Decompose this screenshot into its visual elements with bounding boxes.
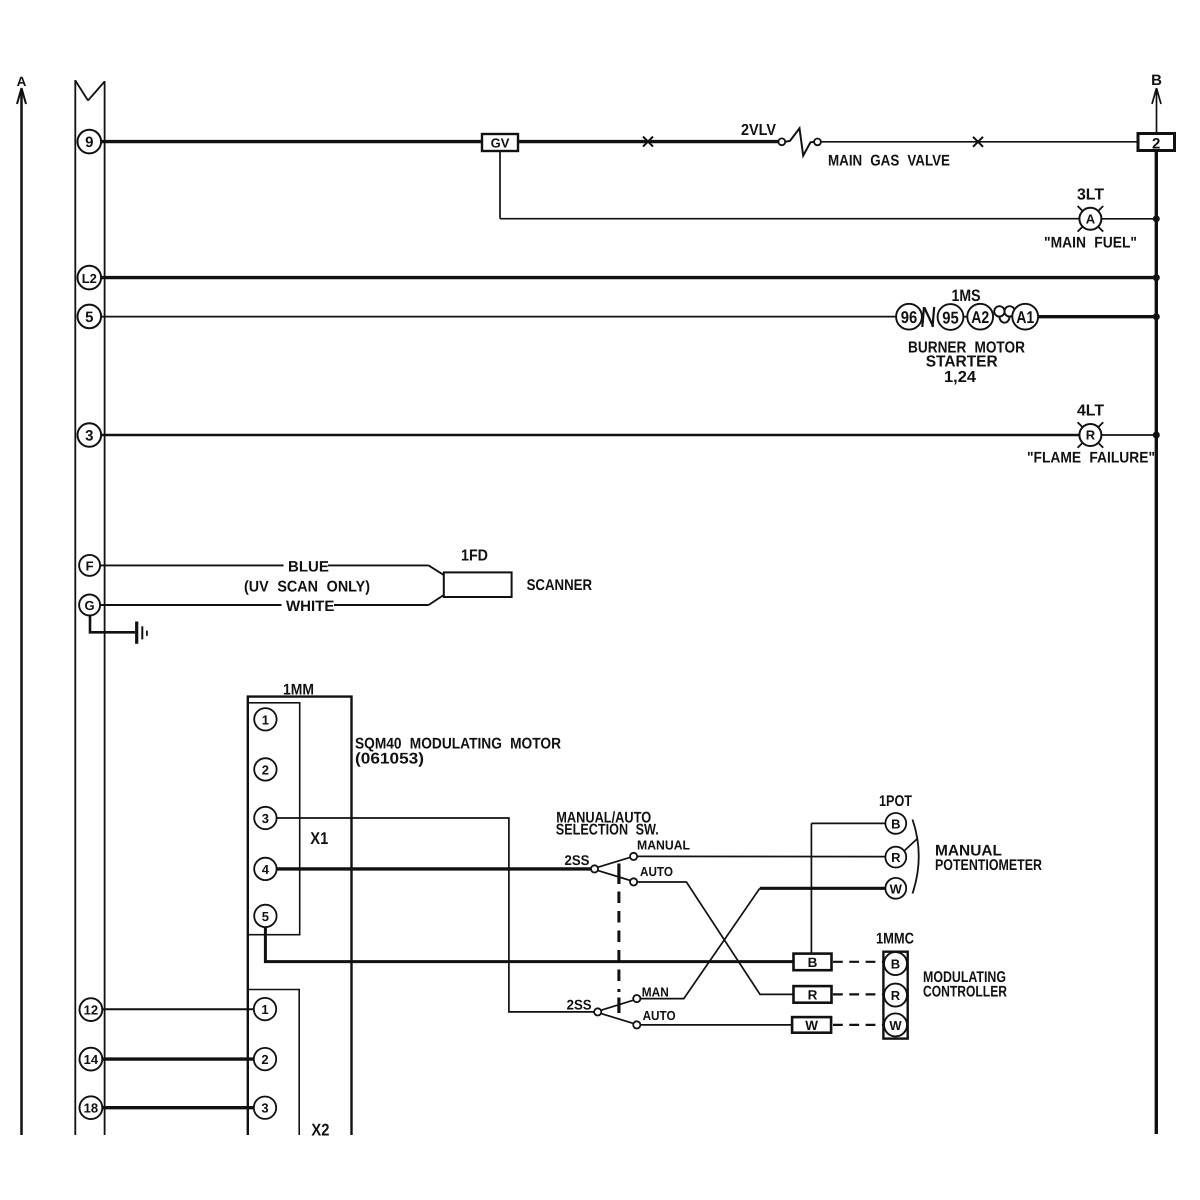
svg-text:CONTROLLER: CONTROLLER — [923, 984, 1007, 1001]
svg-text:4LT: 4LT — [1077, 403, 1104, 420]
svg-text:18: 18 — [84, 1101, 98, 1116]
svg-text:B: B — [1151, 72, 1162, 89]
svg-text:G: G — [85, 598, 95, 613]
svg-text:R: R — [891, 850, 901, 865]
svg-text:2: 2 — [261, 1052, 268, 1067]
svg-text:A2: A2 — [971, 308, 989, 327]
svg-text:2SS: 2SS — [567, 997, 592, 1013]
svg-text:96: 96 — [901, 308, 918, 327]
svg-text:2: 2 — [262, 762, 269, 777]
svg-text:L2: L2 — [82, 271, 97, 286]
svg-text:1MS: 1MS — [952, 287, 981, 305]
svg-text:AUTO: AUTO — [640, 864, 673, 879]
svg-text:SELECTION SW.: SELECTION SW. — [556, 822, 659, 839]
svg-text:2VLV: 2VLV — [741, 122, 776, 139]
svg-text:1: 1 — [261, 1002, 268, 1017]
svg-text:F: F — [86, 558, 94, 573]
svg-text:5: 5 — [85, 309, 93, 326]
svg-text:R: R — [808, 988, 818, 1003]
svg-text:WHITE: WHITE — [286, 598, 334, 615]
svg-text:1: 1 — [262, 712, 269, 727]
svg-text:1MMC: 1MMC — [876, 931, 914, 948]
svg-text:1FD: 1FD — [461, 548, 488, 565]
svg-text:A1: A1 — [1016, 308, 1034, 327]
svg-text:3: 3 — [262, 811, 269, 826]
svg-text:STARTER: STARTER — [926, 354, 998, 371]
svg-text:X2: X2 — [311, 1121, 329, 1140]
svg-text:3LT: 3LT — [1077, 187, 1104, 204]
svg-text:W: W — [890, 881, 903, 896]
svg-text:X1: X1 — [310, 829, 328, 848]
svg-text:POTENTIOMETER: POTENTIOMETER — [935, 857, 1042, 874]
svg-text:12: 12 — [84, 1003, 98, 1018]
svg-text:9: 9 — [85, 134, 93, 151]
svg-text:B: B — [891, 957, 900, 972]
svg-text:95: 95 — [942, 309, 959, 328]
svg-text:BLUE: BLUE — [288, 559, 329, 576]
svg-text:W: W — [889, 1018, 902, 1033]
svg-text:1,24: 1,24 — [944, 369, 976, 386]
svg-text:2: 2 — [1152, 135, 1160, 152]
svg-text:MAIN GAS VALVE: MAIN GAS VALVE — [828, 153, 950, 170]
svg-text:W: W — [805, 1018, 818, 1033]
svg-text:"MAIN FUEL": "MAIN FUEL" — [1044, 235, 1137, 252]
svg-text:"FLAME FAILURE": "FLAME FAILURE" — [1027, 450, 1155, 467]
svg-text:B: B — [891, 816, 900, 831]
svg-text:(061053): (061053) — [355, 751, 424, 768]
svg-text:B: B — [808, 955, 818, 970]
svg-text:5: 5 — [262, 909, 269, 924]
svg-text:2SS: 2SS — [565, 852, 590, 868]
svg-text:SCANNER: SCANNER — [527, 577, 593, 594]
svg-text:3: 3 — [85, 427, 93, 444]
svg-text:R: R — [891, 988, 901, 1003]
svg-text:GV: GV — [491, 135, 510, 150]
svg-text:(UV SCAN ONLY): (UV SCAN ONLY) — [244, 579, 370, 596]
svg-text:MANUAL: MANUAL — [637, 838, 690, 853]
svg-text:AUTO: AUTO — [643, 1008, 676, 1023]
svg-text:A: A — [1086, 212, 1096, 227]
svg-text:A: A — [17, 74, 27, 89]
svg-text:MAN: MAN — [642, 985, 669, 1000]
svg-text:1MM: 1MM — [283, 682, 314, 699]
svg-text:1POT: 1POT — [879, 793, 912, 810]
svg-text:R: R — [1086, 428, 1096, 443]
svg-text:3: 3 — [261, 1101, 268, 1116]
svg-text:4: 4 — [262, 862, 270, 877]
svg-text:14: 14 — [84, 1052, 99, 1067]
